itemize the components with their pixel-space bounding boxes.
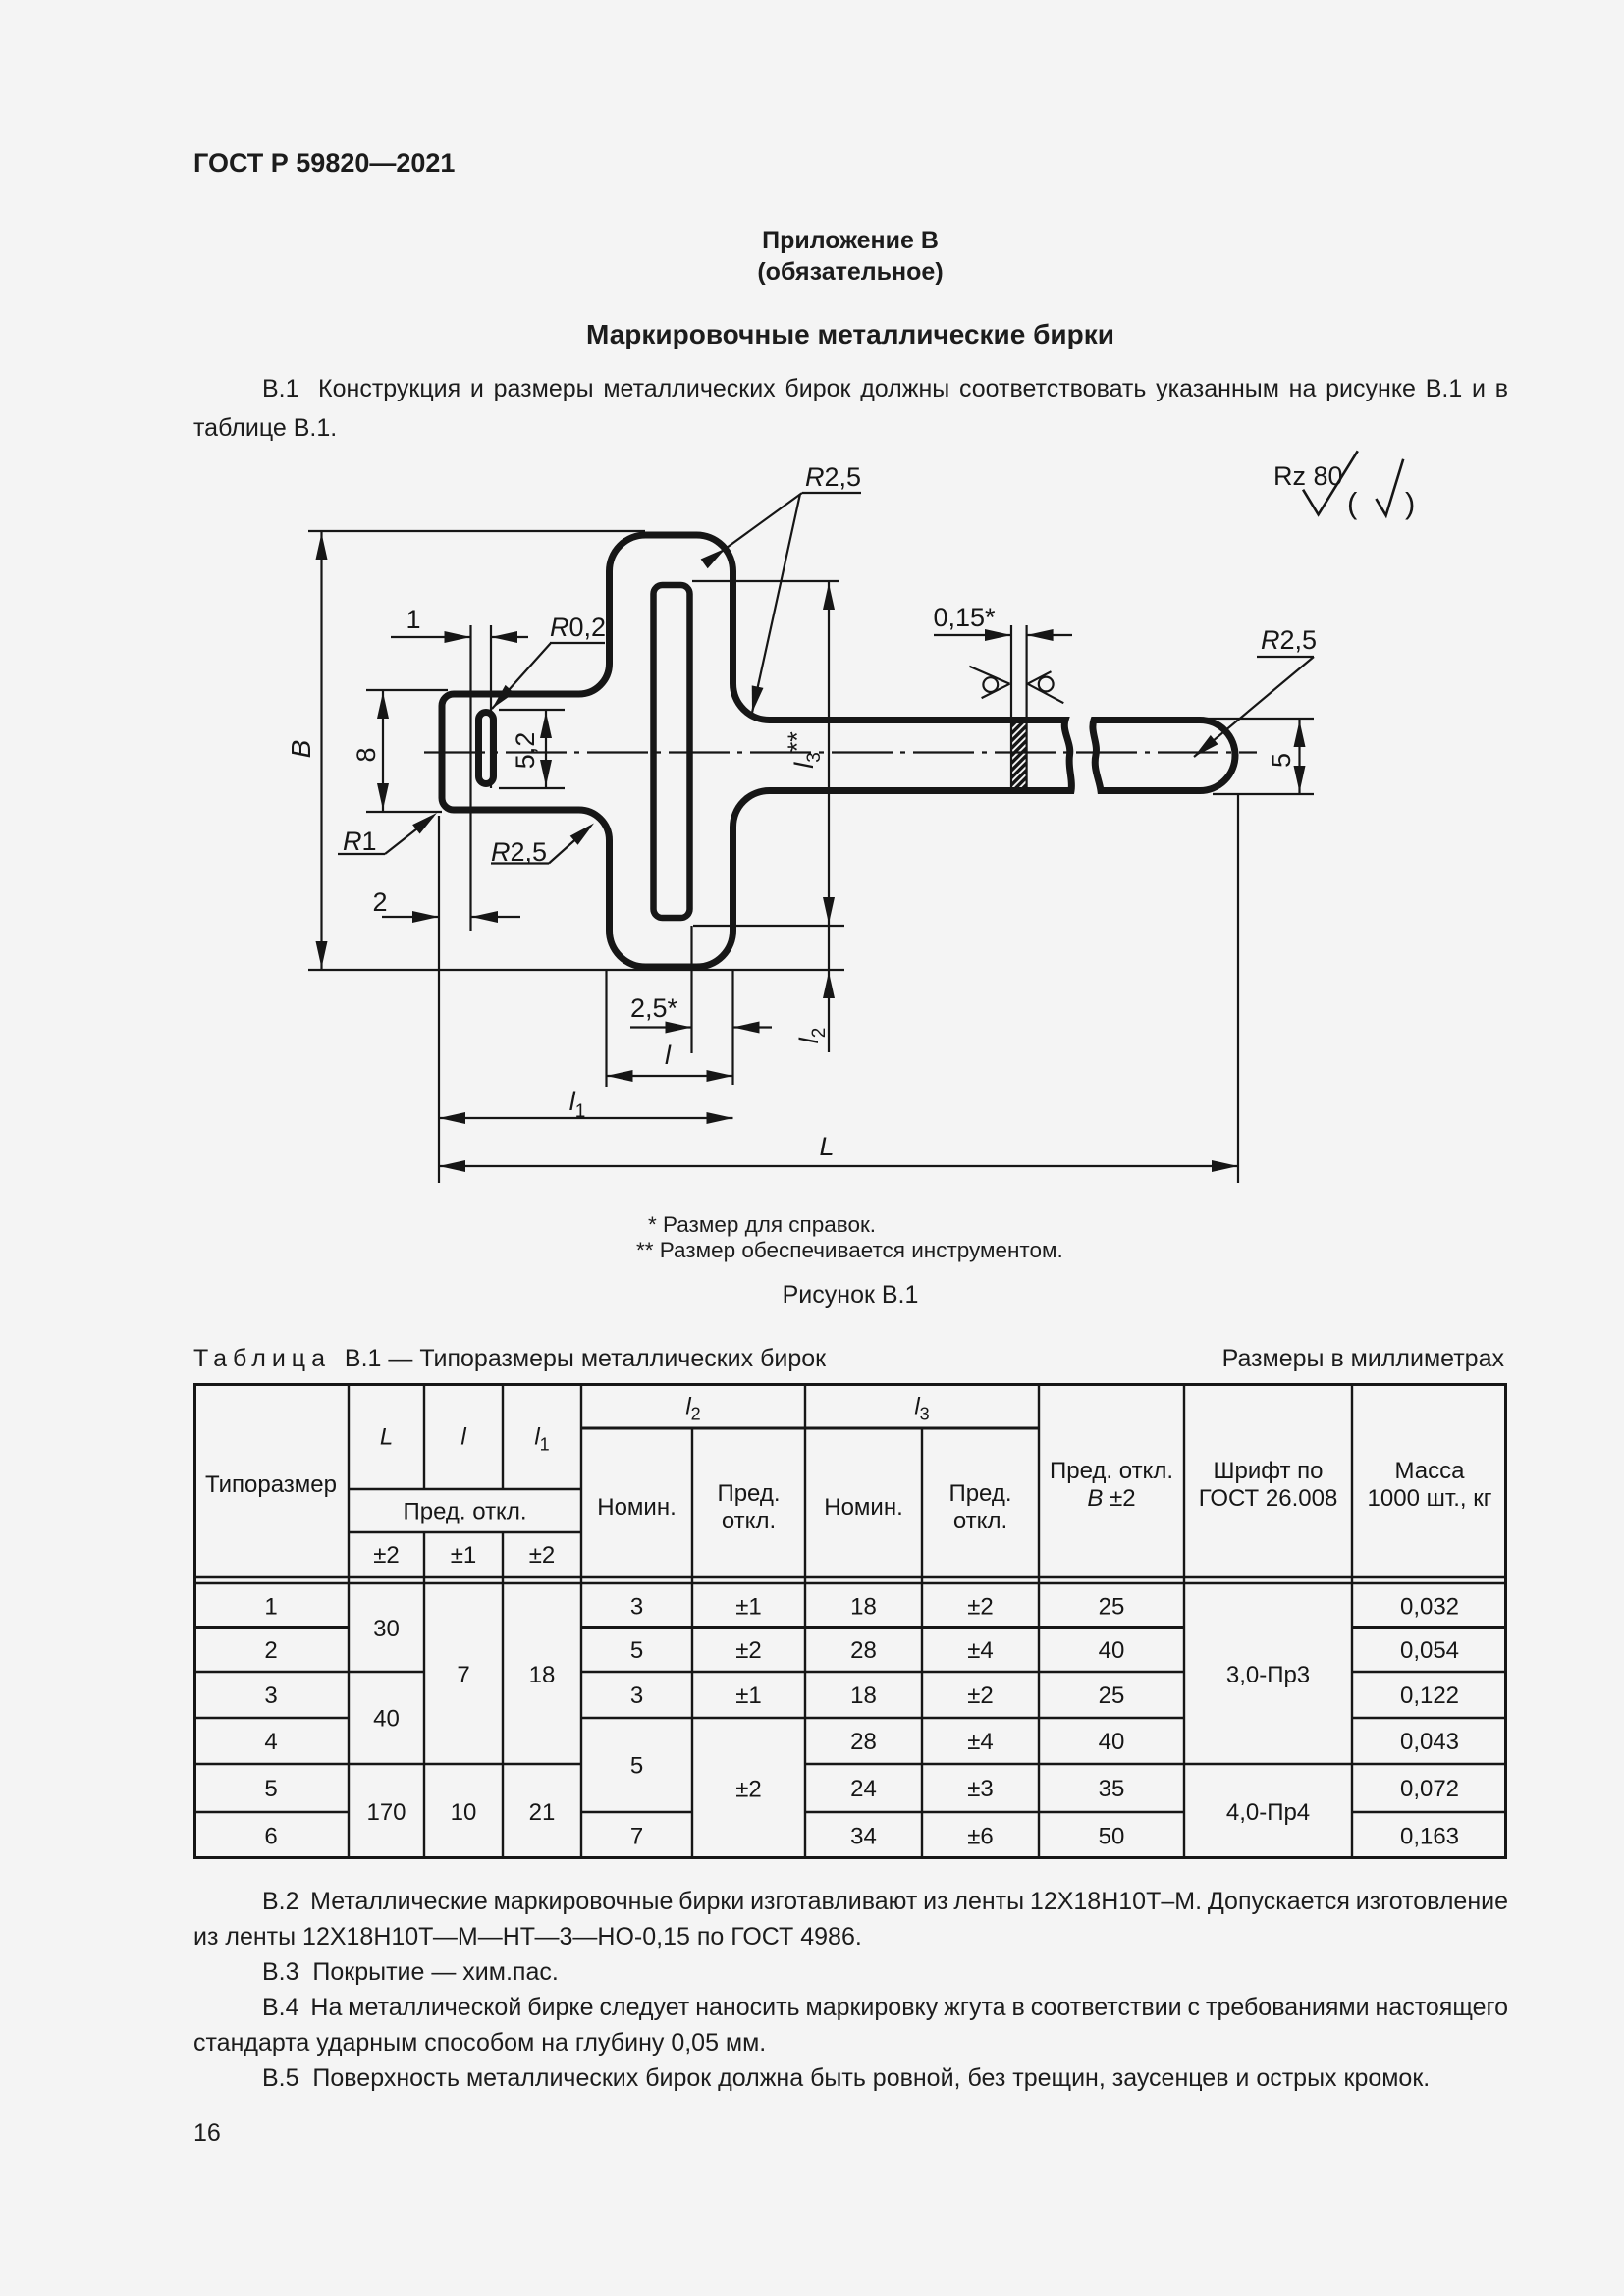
svg-text:±2: ±2 [967, 1682, 994, 1709]
hatch bar edges [1011, 625, 1027, 791]
svg-text:±2: ±2 [735, 1637, 762, 1664]
column lines [349, 1383, 1352, 1859]
ext v body left down [605, 971, 607, 1087]
arrow 5 bottom [1294, 766, 1306, 792]
svg-text:2: 2 [264, 1637, 277, 1664]
R0,2 underline and leader [492, 643, 605, 709]
svg-text:l2: l2 [685, 1394, 700, 1424]
svg-text:3: 3 [630, 1682, 643, 1709]
svg-text:34: 34 [850, 1824, 877, 1850]
arrow l3 top [823, 583, 835, 610]
svg-text:18: 18 [850, 1594, 877, 1621]
svg-text:±3: ±3 [967, 1776, 994, 1802]
svg-text:25: 25 [1099, 1594, 1125, 1621]
svg-text:0,072: 0,072 [1400, 1776, 1459, 1802]
R2,5 bottom underline and leader [491, 827, 590, 864]
arrow dim2 right-tip [412, 911, 439, 923]
arrow B bottom [316, 941, 328, 968]
ext v body right down [731, 971, 733, 1085]
svg-text:±2: ±2 [967, 1594, 994, 1621]
ext body top [308, 530, 645, 532]
svg-text:5: 5 [630, 1637, 643, 1664]
svg-text:0,163: 0,163 [1400, 1824, 1459, 1850]
arrow l left [607, 1070, 633, 1082]
svg-text:1: 1 [264, 1594, 277, 1621]
ext v slot right down [690, 926, 692, 1053]
arrow leader R1 [412, 808, 441, 833]
svg-text:10: 10 [451, 1799, 477, 1826]
svg-text:25: 25 [1099, 1682, 1125, 1709]
running header [193, 150, 455, 177]
dim l3 l2 line [828, 581, 830, 1052]
svg-text:4,0-Пр4: 4,0-Пр4 [1226, 1799, 1310, 1826]
svg-text:18: 18 [529, 1662, 556, 1688]
svg-text:170: 170 [366, 1799, 406, 1826]
arrow l right [707, 1070, 733, 1082]
svg-text:Пред.: Пред. [948, 1480, 1011, 1507]
svg-text:±1: ±1 [735, 1594, 762, 1621]
svg-text:5: 5 [630, 1753, 643, 1780]
arrow 8 bottom [377, 783, 389, 810]
svg-text:±6: ±6 [967, 1824, 994, 1850]
svg-text:1000 шт., кг: 1000 шт., кг [1368, 1485, 1492, 1512]
svg-text:±4: ±4 [967, 1637, 994, 1664]
ext small slot left [469, 625, 471, 931]
arrow l1 left [439, 1112, 465, 1124]
svg-text:L: L [380, 1424, 393, 1451]
inner slot [654, 585, 690, 918]
main outline [442, 535, 1235, 967]
centerline [424, 751, 1257, 753]
dim 8 line [382, 690, 384, 812]
arrow 2,5 right [733, 1022, 760, 1034]
svg-text:40: 40 [1099, 1729, 1125, 1755]
svg-text:откл.: откл. [953, 1508, 1007, 1534]
hatch fill [1007, 709, 1029, 812]
Rz check symbol [1303, 451, 1358, 514]
arrows [316, 533, 1306, 1172]
svg-text:30: 30 [373, 1616, 400, 1642]
svg-text:40: 40 [373, 1706, 400, 1733]
surface symbol right [1028, 671, 1064, 703]
svg-text:3: 3 [630, 1594, 643, 1621]
R1 underline and leader [338, 817, 433, 855]
dim l line [607, 1075, 733, 1077]
svg-text:±1: ±1 [735, 1682, 762, 1709]
svg-text:Шрифт по: Шрифт по [1214, 1458, 1324, 1484]
ext v tab left down [438, 816, 440, 1183]
ext body bottom [308, 969, 844, 971]
arrow dim1 right-tip [445, 631, 471, 643]
arrow 5 top [1294, 721, 1306, 747]
svg-text:l: l [460, 1424, 466, 1451]
svg-text:Пред. откл.: Пред. откл. [403, 1499, 526, 1525]
svg-text:28: 28 [850, 1729, 877, 1755]
dim 5 line [1298, 719, 1300, 794]
paragraph B.2 [193, 1884, 1508, 1954]
arrow 5,2 bottom [540, 760, 552, 786]
small slot [479, 713, 494, 784]
svg-text:5: 5 [264, 1776, 277, 1802]
svg-text:7: 7 [457, 1662, 469, 1688]
dim B line [320, 531, 322, 970]
arrow 8 top [377, 692, 389, 719]
dim L line [439, 1165, 1238, 1167]
figure footnotes [648, 1214, 876, 1237]
ext tab bottom [366, 811, 442, 813]
svg-text:18: 18 [850, 1682, 877, 1709]
ext tab top [366, 689, 448, 691]
ext 5 right [1205, 719, 1314, 794]
R2,5 right underline and leader [1194, 657, 1314, 757]
arrow leader R2,5 corner [701, 544, 730, 569]
arrow dim1 left-tip [491, 631, 517, 643]
arrow leader R0,2 [488, 685, 514, 713]
page number [193, 2121, 221, 2146]
arrow l3 bottom [823, 897, 835, 924]
arrow 2,5 left [666, 1022, 692, 1034]
svg-text:Номин.: Номин. [824, 1494, 903, 1521]
ext 5,2 [499, 710, 565, 788]
svg-text:4: 4 [264, 1729, 277, 1755]
strip right piece with cap [1093, 721, 1235, 791]
arrow B top [316, 533, 328, 560]
table caption row [193, 1347, 826, 1371]
svg-text:6: 6 [264, 1824, 277, 1850]
ext slot top / bottom [692, 581, 844, 926]
svg-text:±2: ±2 [373, 1542, 400, 1569]
dim 2,5 segs [630, 1026, 772, 1028]
dim 0,15 segs [934, 634, 1072, 636]
svg-text:0,032: 0,032 [1400, 1594, 1459, 1621]
arrow l2 [823, 972, 835, 998]
svg-text:±2: ±2 [529, 1542, 556, 1569]
svg-text:±4: ±4 [967, 1729, 994, 1755]
dim 1 segs [391, 636, 528, 638]
svg-text:Типоразмер: Типоразмер [205, 1471, 337, 1498]
svg-text:Пред.: Пред. [717, 1480, 780, 1507]
arrow dim2 left-tip [471, 911, 498, 923]
paragraph B.1 [193, 369, 1508, 448]
svg-text:3: 3 [264, 1682, 277, 1709]
surface symbol left [969, 667, 1009, 698]
svg-text:0,122: 0,122 [1400, 1682, 1459, 1709]
arrow leader R2,5 cap [1190, 735, 1218, 762]
arrow L left [439, 1160, 465, 1172]
dim 5,2 line [545, 710, 547, 788]
svg-text:28: 28 [850, 1637, 877, 1664]
svg-text:l1: l1 [534, 1424, 549, 1455]
arrow l1 right [707, 1112, 733, 1124]
figure labels [286, 461, 1415, 1161]
svg-text:B ±2: B ±2 [1087, 1485, 1135, 1512]
svg-text:Масса: Масса [1395, 1458, 1466, 1484]
ext v cap right down [1237, 795, 1239, 1183]
svg-text:±1: ±1 [451, 1542, 477, 1569]
dim 2 segs [382, 916, 520, 918]
svg-text:40: 40 [1099, 1637, 1125, 1664]
svg-text:0,043: 0,043 [1400, 1729, 1459, 1755]
svg-text:l3: l3 [914, 1394, 929, 1424]
svg-text:35: 35 [1099, 1776, 1125, 1802]
svg-text:3,0-Пр3: 3,0-Пр3 [1226, 1662, 1310, 1688]
svg-text:Номин.: Номин. [597, 1494, 677, 1521]
svg-text:Пред. откл.: Пред. откл. [1050, 1458, 1173, 1484]
ext small slot right [490, 625, 492, 788]
svg-text:ГОСТ 26.008: ГОСТ 26.008 [1199, 1485, 1338, 1512]
svg-text:откл.: откл. [722, 1508, 776, 1534]
arrow L right [1212, 1160, 1238, 1172]
row separators [193, 1626, 1507, 1629]
Rz paren check symbol [1376, 459, 1403, 516]
R2,5 top underline and leaders [709, 493, 861, 713]
arrow leader R2,5 fillet [746, 685, 763, 714]
svg-text:7: 7 [630, 1824, 643, 1850]
header inner lines [581, 1427, 1039, 1430]
appendix heading [762, 229, 939, 253]
dim l1 line [439, 1117, 733, 1119]
svg-text:24: 24 [850, 1776, 877, 1802]
arrow 0,15 right [1027, 629, 1054, 641]
arrow 5,2 top [540, 712, 552, 738]
arrow leader R2,5 bottom [570, 819, 598, 845]
arrow 0,15 left [985, 629, 1011, 641]
section title [586, 321, 1114, 348]
svg-text:0,054: 0,054 [1400, 1637, 1459, 1664]
svg-text:21: 21 [529, 1799, 556, 1826]
svg-text:50: 50 [1099, 1824, 1125, 1850]
svg-text:±2: ±2 [735, 1777, 762, 1803]
